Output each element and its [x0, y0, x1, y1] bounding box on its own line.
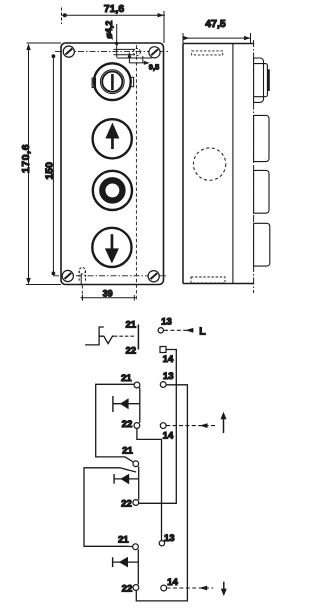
block 3 (middle contact): terminal 21 circle	[133, 461, 139, 467]
wire 21-22 (block 4)	[137, 549, 139, 584]
down direction symbol	[221, 582, 227, 596]
wire 21-22 (block 3)	[138, 467, 140, 500]
screw bottom-right	[148, 271, 159, 282]
svg-text:170,6: 170,6	[20, 144, 32, 173]
dimension 9,5	[128, 52, 150, 65]
screw top-right	[149, 47, 160, 58]
svg-text:150: 150	[43, 162, 55, 180]
stop button	[93, 171, 132, 210]
screw top-left	[63, 46, 74, 57]
enclosure front outline	[61, 43, 164, 285]
dimension 47,5	[183, 33, 251, 44]
mounting slot top	[114, 49, 153, 58]
terminal 13 circle (down row)	[159, 541, 164, 546]
wire: 22 (block2) to 13 (bottom pair)	[137, 428, 162, 540]
svg-text:22: 22	[125, 346, 136, 357]
svg-text:13: 13	[161, 317, 172, 328]
svg-text:22: 22	[122, 419, 133, 430]
svg-text:14: 14	[163, 431, 174, 442]
extension line bottom-left	[26, 284, 61, 286]
diode D1	[113, 396, 140, 412]
up button	[93, 119, 132, 158]
screw bottom-left	[62, 270, 73, 281]
mounting slot bottom (dashed)	[79, 268, 85, 282]
enclosure side outline	[183, 44, 254, 284]
svg-text:9,5: 9,5	[149, 63, 159, 72]
terminal 14 (square)	[160, 347, 166, 353]
terminal 22 circle (block 2)	[134, 423, 140, 429]
svg-text:47,5: 47,5	[205, 18, 226, 30]
dimension 39	[81, 295, 137, 301]
wire: square 14 to bus, down to 22 of middle block	[139, 350, 176, 504]
extension line top-left	[27, 42, 62, 44]
svg-text:21: 21	[121, 373, 132, 384]
hanger slot bottom (dashed)	[191, 277, 225, 283]
hanger slot top (dashed)	[192, 51, 223, 55]
screw centre line bottom (dash-dot)	[53, 275, 168, 277]
wire: 13 up-row to 22 of down block	[136, 385, 187, 601]
svg-text:14: 14	[163, 354, 174, 365]
cable entry circle (dashed)	[193, 148, 225, 180]
terminal 14 circle (down row)	[161, 585, 167, 591]
leader line for hole	[115, 24, 118, 58]
svg-text:21: 21	[118, 534, 129, 545]
block 2 (up contact): entry wire	[96, 384, 134, 462]
svg-text:14: 14	[167, 577, 178, 588]
indicator line to L (dashed)	[164, 329, 196, 331]
svg-text:L: L	[199, 326, 206, 338]
svg-text:39: 39	[103, 288, 113, 298]
terminal 14 circle (up row)	[160, 423, 166, 429]
side face centre line (dash-dot)	[253, 40, 255, 293]
arrow down-row	[199, 586, 207, 591]
down button	[92, 228, 131, 267]
actuator link (dashed)	[114, 335, 136, 337]
terminal 21 circle (block 2)	[134, 382, 140, 388]
svg-text:22: 22	[121, 498, 132, 509]
svg-text:13: 13	[164, 533, 175, 544]
svg-text:13: 13	[163, 371, 174, 382]
mounting hole top (dashed)	[133, 49, 140, 56]
key switch symbol	[85, 327, 114, 345]
arrow to L	[185, 328, 193, 333]
diode D3	[113, 557, 139, 568]
dimension 71,6	[62, 8, 166, 44]
terminal 13 L-row	[158, 328, 163, 333]
svg-text:21: 21	[125, 320, 136, 331]
hole centre line vertical (dashed)	[135, 45, 137, 300]
block 4 (down contact): terminal 21 circle	[133, 544, 139, 550]
key switch side profile	[254, 58, 270, 102]
dimension 150	[52, 54, 56, 275]
svg-text:ø4,2: ø4,2	[104, 21, 114, 39]
terminal 13 circle (up row)	[160, 382, 166, 388]
cover split line	[232, 44, 234, 284]
indicator line up-row (dashed)	[166, 425, 215, 427]
svg-text:21: 21	[122, 445, 133, 456]
arrow up-row	[200, 423, 208, 428]
key contact bar	[137, 325, 139, 350]
key switch S1	[92, 63, 133, 100]
wire 21-22 (block 2)	[139, 388, 141, 423]
button side profile 3	[254, 223, 270, 266]
chain wire out of block 3	[84, 468, 136, 547]
svg-text:71,6: 71,6	[104, 3, 125, 15]
button side profile 1	[254, 115, 269, 161]
hole extension bottom-left (dashed)	[81, 285, 83, 300]
svg-text:22: 22	[122, 583, 133, 594]
indicator line down-row (dashed)	[167, 587, 214, 589]
diode D2	[114, 474, 139, 485]
dimension 170,6	[26, 44, 30, 285]
terminal 22 circle (block 4)	[133, 585, 139, 591]
terminal 22 circle (block 3)	[133, 500, 139, 506]
slot edge line bottom	[80, 274, 82, 285]
up direction symbol	[221, 412, 227, 433]
screw centre line top (dash-dot)	[55, 51, 168, 53]
button side profile 2	[254, 170, 269, 213]
